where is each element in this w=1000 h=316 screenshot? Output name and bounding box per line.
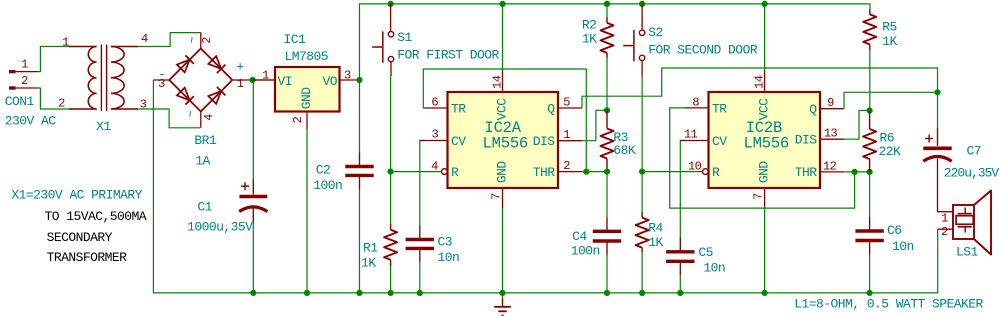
plus mark C1 (241, 185, 249, 187)
svg-text:THR: THR (533, 165, 556, 180)
wire CON1 pin1 to X1 pin1 (38, 47, 73, 72)
wire +5V down to C2 (359, 80, 361, 153)
junction top rail VCC IC2B (762, 1, 768, 7)
svg-text:LM556: LM556 (483, 135, 529, 153)
svg-text:GND: GND (757, 161, 772, 184)
wire C4 to bus (606, 255, 608, 293)
svg-text:X1=230V AC PRIMARY: X1=230V AC PRIMARY (11, 188, 142, 203)
svg-text:C4: C4 (572, 229, 587, 244)
svg-text:LM556: LM556 (744, 135, 790, 153)
junction C3-bus (417, 290, 423, 296)
svg-text:FOR SECOND DOOR: FOR SECOND DOOR (648, 42, 758, 57)
diode D2 (BR1 upper-right) (208, 56, 225, 73)
pin THR (IC2B pin 12) (820, 171, 844, 173)
junction GND IC2A-bus (499, 290, 505, 296)
wire VCC IC2B to top rail (764, 4, 766, 70)
wire R1 top (390, 172, 392, 224)
svg-text:C6: C6 (887, 223, 902, 238)
wire C2 to bus (359, 189, 361, 293)
junction C6-bus (867, 290, 873, 296)
svg-text:L1=8-OHM, 0.5 WATT SPEAKER: L1=8-OHM, 0.5 WATT SPEAKER (794, 297, 983, 312)
wire DIS IC2A to R2/R3 junction (582, 110, 607, 140)
svg-text:2: 2 (201, 37, 214, 44)
junction R5/R6/DIS IC2B (867, 107, 873, 113)
pin TR (IC2A pin 6) (423, 107, 447, 109)
wire R4 top (641, 172, 643, 212)
wire IC2A GND to bus (502, 208, 504, 293)
svg-text:BR1: BR1 (194, 133, 217, 148)
wire Q IC2A to mix node at C7 (582, 68, 938, 108)
wire R2 bottom to junction (606, 58, 608, 110)
svg-text:R: R (451, 165, 459, 180)
junction top rail R2 (604, 1, 610, 7)
svg-text:R2: R2 (582, 18, 597, 33)
junction S2/R4 row (639, 169, 645, 175)
node +5V at VO (356, 77, 362, 83)
junction R4-bus (639, 290, 645, 296)
capacitor C7 (electrolytic) (923, 148, 951, 161)
svg-text:LS1: LS1 (956, 245, 979, 260)
wire + rail down to C1 (252, 80, 254, 179)
capacitor C5 (679, 238, 681, 252)
resistor R6 (869, 111, 871, 130)
svg-text:GND: GND (299, 87, 314, 110)
wire C6 to bus (869, 255, 871, 293)
wire BR1 minus output down to ground bus and bottom bus to speaker (153, 80, 937, 293)
capacitor C3 (419, 226, 421, 240)
wire THR IC2B junction row (844, 171, 870, 173)
pin Q (IC2A pin 5) (558, 107, 582, 109)
wire Q IC2B to mix node at C7 (844, 92, 935, 108)
timer IC2B body (709, 92, 821, 188)
svg-text:68K: 68K (613, 143, 636, 158)
speaker LS1 crystal element (956, 208, 973, 233)
svg-text:1: 1 (237, 77, 244, 91)
svg-text:5: 5 (563, 96, 570, 110)
wire CV IC2B to C5 (680, 141, 686, 239)
junction THR/TR IC2A (583, 169, 589, 175)
wire S1 to R pin of IC2A (391, 76, 442, 172)
svg-text:4: 4 (203, 114, 216, 121)
svg-text:9: 9 (827, 96, 834, 110)
svg-text:13: 13 (824, 126, 838, 140)
junction top rail S1 (388, 1, 394, 7)
wire TR IC2A loop to THR junction (423, 69, 586, 172)
resistor R2 (606, 17, 608, 23)
capacitor C4 (606, 217, 608, 231)
resistor R5 (869, 9, 871, 14)
svg-text:VI: VI (278, 74, 293, 89)
svg-text:230V AC: 230V AC (5, 114, 57, 129)
svg-text:14: 14 (753, 75, 767, 89)
svg-text:Q: Q (547, 101, 555, 116)
wire S2 down to R pin IC2B row (642, 76, 702, 172)
svg-text:IC1: IC1 (284, 32, 307, 47)
wire IC2B GND to bus (764, 208, 766, 293)
svg-text:GND: GND (495, 161, 510, 184)
node + rectifier output junction (250, 77, 256, 83)
wire R2 top to rail (606, 4, 608, 17)
junction top rail VCC IC2A (499, 1, 505, 7)
svg-text:~: ~ (186, 36, 200, 43)
transformer X1 core (101, 45, 106, 112)
svg-text:12: 12 (823, 159, 837, 173)
svg-text:DIS: DIS (533, 134, 556, 149)
switch S1 (372, 4, 394, 76)
svg-text:X1: X1 (96, 119, 111, 134)
svg-text:10n: 10n (438, 250, 460, 265)
wire X1 pin4 to BR1 AC top (138, 33, 201, 47)
wire CV IC2A to C3 (420, 141, 425, 227)
svg-text:TR: TR (712, 101, 727, 116)
junction R3-THR row (604, 169, 610, 175)
pin GND (IC2A pin 7) (502, 188, 504, 208)
wire junction to C4 (606, 172, 608, 218)
svg-text:CV: CV (712, 134, 727, 149)
timer IC2A body (448, 92, 559, 188)
svg-text:4: 4 (431, 159, 438, 173)
wire R4 bottom to bus (641, 252, 643, 293)
svg-text:10n: 10n (892, 239, 914, 254)
svg-text:SECONDARY: SECONDARY (47, 230, 113, 245)
ground (494, 293, 511, 316)
svg-text:1A: 1A (195, 153, 210, 168)
svg-text:1K: 1K (648, 235, 663, 250)
svg-text:1000u,35V: 1000u,35V (187, 220, 253, 235)
svg-text:LM7805: LM7805 (285, 49, 329, 64)
svg-text:2: 2 (291, 116, 305, 123)
svg-text:C5: C5 (698, 245, 713, 260)
svg-text:1: 1 (262, 68, 269, 82)
svg-text:1: 1 (563, 128, 570, 142)
svg-text:4: 4 (141, 32, 148, 46)
svg-text:C7: C7 (967, 144, 982, 159)
junction S1/R1/R-pin (388, 169, 394, 175)
svg-text:R: R (712, 165, 720, 180)
wire mix node down to C7 (937, 92, 939, 128)
svg-text:8: 8 (692, 95, 699, 109)
junction top rail S2 (639, 1, 645, 7)
wire VI pin (253, 79, 275, 81)
bridge rectifier BR1 body (153, 33, 249, 128)
pin R (IC2B pin 10) with inverting circle (703, 169, 709, 175)
resistor R1 (390, 224, 392, 230)
pin THR (IC2A pin 2) (558, 171, 582, 173)
svg-text:FOR FIRST DOOR: FOR FIRST DOOR (397, 47, 499, 62)
svg-text:7: 7 (490, 193, 504, 200)
svg-text:C3: C3 (438, 235, 453, 250)
svg-text:2: 2 (58, 97, 65, 111)
capacitor C1 (electrolytic) (239, 197, 267, 212)
wire DIS IC2B to R5/R6 junction (844, 111, 870, 140)
svg-text:2: 2 (563, 159, 570, 173)
svg-text:DIS: DIS (795, 132, 818, 147)
diode D3 (BR1 lower-left) (177, 87, 194, 104)
wire R1 bottom to bus (390, 266, 392, 293)
svg-text:6: 6 (431, 95, 438, 109)
svg-text:10n: 10n (703, 261, 725, 276)
svg-text:S1: S1 (397, 30, 412, 45)
junction R6 bottom (867, 169, 873, 175)
pin TR (IC2B pin 8) (685, 107, 709, 109)
speaker LS1 body (953, 191, 991, 255)
junction C5-bus (677, 290, 683, 296)
junction C2-bus (356, 290, 362, 296)
svg-text:100n: 100n (313, 178, 342, 193)
resistor R3 (606, 110, 608, 128)
junction THR IC2B (852, 169, 858, 175)
pin CV (IC2A pin 3) (420, 140, 448, 142)
svg-text:100n: 100n (571, 244, 600, 259)
svg-text:CON1: CON1 (5, 94, 35, 109)
junction Q outputs mix at C7 (934, 89, 940, 95)
svg-text:R1: R1 (363, 241, 378, 256)
svg-text:14: 14 (491, 75, 505, 89)
resistor R4 (641, 212, 643, 218)
wire C3 to bus (419, 262, 421, 293)
svg-text:3: 3 (158, 77, 165, 91)
svg-text:TRANSFORMER: TRANSFORMER (47, 250, 128, 265)
pin VCC (IC2B pin 14) (764, 70, 766, 92)
wire C1 to bottom bus (252, 208, 254, 222)
svg-text:2: 2 (941, 225, 948, 239)
wire IC1 GND pin down to bus (306, 112, 308, 293)
svg-text:VCC: VCC (757, 98, 772, 121)
diode D4 (BR1 lower-right) (208, 87, 225, 104)
wire TR IC2B loop under IC to THR junction (670, 108, 855, 208)
junction R1-bus (388, 290, 394, 296)
wire CON1 pin2 to X1 pin2 (38, 88, 73, 109)
capacitor C6 (869, 217, 871, 231)
pin DIS (IC2A pin 1) (558, 140, 582, 142)
plus mark C7 (925, 138, 933, 140)
svg-text:C1: C1 (197, 200, 212, 215)
wire THR IC2A to junction row (582, 171, 607, 173)
capacitor C2 (359, 153, 361, 167)
junction IC1 GND-bus (304, 290, 310, 296)
svg-text:R4: R4 (648, 221, 663, 236)
pin Q (IC2B pin 9) (820, 108, 844, 110)
pin GND (IC2B pin 7) (764, 188, 766, 208)
wire LS1 pin2 (938, 228, 953, 230)
junction R2/R3/DIS (604, 107, 610, 113)
wire R5 bottom to junction (869, 50, 871, 111)
svg-text:1K: 1K (582, 32, 597, 47)
wire junction to C6 (869, 172, 871, 218)
junction GND IC2B-bus (762, 290, 768, 296)
pin DIS (IC2B pin 13) (820, 138, 844, 140)
pin VCC (IC2A pin 14) (502, 70, 504, 92)
svg-text:TO 15VAC,500MA: TO 15VAC,500MA (45, 209, 147, 224)
transformer X1 secondary winding (111, 47, 138, 110)
junction C4-bus (604, 290, 610, 296)
regulator IC1 body (275, 67, 340, 112)
svg-text:3: 3 (431, 128, 438, 142)
wire VCC IC2A to top rail (502, 4, 504, 70)
wire C5 to bus (679, 275, 681, 293)
wire +5V rail from VO junction along top (360, 4, 871, 80)
svg-text:VO: VO (322, 74, 337, 89)
svg-text:22K: 22K (879, 144, 902, 159)
svg-text:THR: THR (795, 165, 818, 180)
svg-text:10: 10 (688, 159, 702, 173)
svg-text:VCC: VCC (495, 98, 510, 121)
svg-text:+: + (236, 59, 244, 74)
switch S2 (623, 4, 645, 76)
svg-text:1: 1 (21, 58, 28, 72)
svg-text:7: 7 (752, 193, 766, 200)
svg-text:S2: S2 (648, 25, 663, 40)
svg-text:CV: CV (451, 134, 466, 149)
svg-text:1K: 1K (361, 256, 376, 271)
svg-text:TR: TR (451, 101, 466, 116)
svg-text:220u,35V: 220u,35V (944, 166, 1000, 181)
connector CON1 pin 2 (9, 86, 38, 89)
svg-text:11: 11 (684, 128, 698, 142)
connector CON1 pin 1 (9, 70, 38, 73)
diode D1 (BR1 upper-left) (177, 55, 194, 72)
svg-text:Q: Q (809, 102, 817, 117)
wire X1 pin3 to BR1 AC bottom (138, 109, 200, 128)
svg-text:C2: C2 (316, 163, 331, 178)
svg-text:1: 1 (62, 36, 69, 50)
svg-text:1: 1 (941, 212, 948, 226)
wire VO pin to +5V node (340, 79, 360, 81)
svg-text:1K: 1K (882, 34, 897, 49)
wire C7 to LS1 pin1 (938, 159, 954, 212)
junction C1-bus (250, 290, 256, 296)
svg-text:2: 2 (21, 74, 28, 88)
pin CV (IC2B pin 11) (680, 140, 708, 142)
wire BR1 plus output to IC1 VI (250, 79, 276, 81)
svg-text:R5: R5 (882, 20, 897, 35)
svg-text:~: ~ (185, 110, 199, 117)
pin R (IC2A pin 4) with inverting circle (442, 169, 448, 175)
transformer X1 primary winding (69, 47, 97, 110)
